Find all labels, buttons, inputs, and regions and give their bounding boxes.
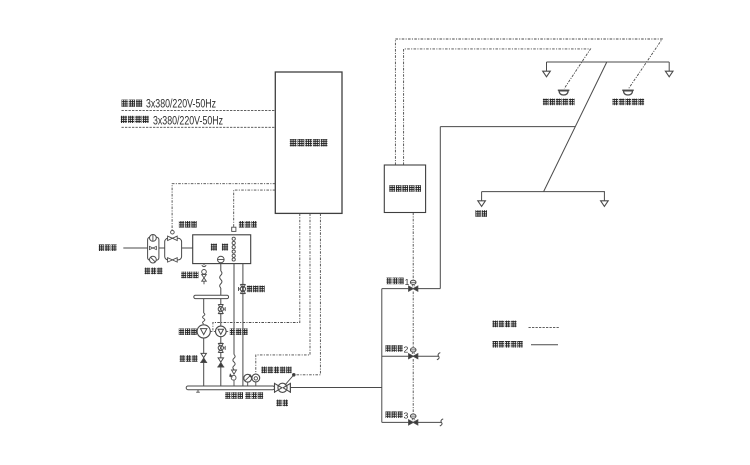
zone valve 2 branch: [382, 355, 439, 357]
svg-text:3x380/220V-50Hz: 3x380/220V-50Hz: [146, 97, 216, 111]
bypass loop with solenoid valve 电磁阀: [165, 238, 182, 260]
heat detector 感温探测器: [558, 89, 570, 91]
label 止回阀: [180, 355, 198, 362]
label 水系统管路 (water pipe legend): [493, 341, 523, 348]
label 高压泵: [179, 328, 197, 335]
zone riser pipe: [381, 289, 383, 423]
label 泄压阀 压力表: [225, 392, 243, 399]
check valve 止回阀 HP: [201, 353, 206, 357]
globe valve SP discharge: [219, 342, 223, 344]
legend dashed sample: [529, 327, 560, 329]
globe valve SP suction: [219, 304, 223, 306]
zone valve 1 branch: [382, 288, 441, 290]
zone valve 3 区域阀3: [409, 420, 414, 425]
label 报警控制器: [389, 185, 421, 192]
sprinkler riser: [439, 127, 441, 289]
label 压力传感器: [261, 367, 291, 374]
sprinkler head lower-left: [481, 192, 483, 201]
wire cabinet to level gauge dashed: [234, 190, 276, 227]
suction header bar: [194, 295, 229, 298]
sprinkler head upper-left: [546, 62, 548, 71]
label 区域阀3: [386, 411, 403, 418]
flex joint relief line: [233, 355, 235, 370]
legend solid sample: [531, 344, 558, 346]
wire inlet pipe: [123, 247, 147, 249]
wire zone valve signal dashed: [412, 213, 414, 281]
main pipe drain tick: [197, 390, 199, 393]
zone valve 2 区域阀2: [409, 354, 414, 359]
sprinkler head lower-right: [603, 192, 605, 201]
label 液位计: [239, 221, 257, 228]
pump 稳压泵: [216, 326, 227, 337]
test valve 测试阀: [241, 283, 245, 285]
wire riser top connector: [440, 126, 575, 128]
label 区域阀1: [387, 278, 404, 285]
label 感温探测器: [543, 99, 575, 106]
wire header to HP pump flex: [203, 299, 205, 313]
label 喷头: [475, 210, 487, 217]
label 电磁阀: [179, 221, 197, 228]
svg-text:1: 1: [405, 277, 410, 287]
wire backup power dashed: [122, 126, 276, 128]
filter 过滤器: [148, 237, 159, 260]
lower sprinkler branch: [482, 191, 605, 193]
wire pump link dashed: [210, 330, 215, 332]
wire relief return line upper: [233, 264, 235, 355]
wire main pipe to zone riser: [290, 387, 381, 389]
pressure transducer dot and link: [292, 373, 295, 376]
wire cabinet to pressure gauge dashed: [256, 213, 310, 374]
label 主阀: [276, 400, 288, 407]
main valve 主阀: [274, 383, 276, 393]
label 排水阀: [181, 272, 198, 279]
wire SP pump to discharge valve: [220, 337, 222, 344]
wire bypass to tank: [182, 247, 193, 249]
water tank 水箱 box: [193, 235, 251, 264]
main pipe bar: [186, 386, 274, 390]
relief drain valve: [232, 370, 237, 374]
pump control cabinet 泵组控制柜 box: [275, 72, 342, 213]
drain valve 排水阀: [203, 264, 205, 266]
wire HP check valve to main pipe: [203, 362, 205, 386]
zone valve 3 branch: [382, 421, 442, 423]
wire tank outlet to header with flex joint: [220, 263, 222, 271]
wire test line: [242, 264, 244, 386]
label 电信号线 (signal wire legend): [493, 321, 517, 328]
wire SP valve to pump: [220, 314, 222, 326]
wire cabinet to pumps dashed: [213, 213, 300, 330]
pressure gauge 压力表: [255, 382, 257, 386]
wire filter to bypass: [159, 247, 165, 249]
wire SP check valve to main pipe: [220, 367, 222, 386]
wire alarm to smoke detector dashed: [395, 39, 662, 165]
label 进水管 (inlet pipe): [99, 244, 117, 251]
smoke detector 感烟探测器: [622, 89, 634, 91]
sprinkler head upper-right: [668, 62, 670, 71]
label 备用电源 (backup power): [121, 116, 149, 123]
svg-text:2: 2: [404, 344, 409, 354]
wire main power dashed: [122, 109, 276, 111]
wire HP pump to check valve: [203, 338, 205, 353]
wire header to SP valve: [220, 299, 222, 305]
label 区域阀2: [386, 345, 403, 352]
wire cabinet to solenoid valve dashed: [172, 184, 275, 231]
label 主电源 (main power): [122, 100, 143, 107]
label 测试阀: [247, 286, 265, 293]
level gauge 液位计: [232, 227, 236, 231]
label 泵组控制柜: [290, 139, 328, 146]
wire alarm to temp detector dashed: [404, 49, 591, 165]
wire cabinet to pressure transducer dashed: [295, 213, 320, 374]
label 稳压泵: [230, 328, 248, 335]
wire to SP check valve: [220, 353, 222, 358]
tank outlet strainer circle: [218, 256, 225, 263]
pump 高压泵: [197, 325, 210, 338]
upper sprinkler branch: [547, 61, 670, 63]
pipe diagonal: [544, 62, 607, 192]
label 感烟探测器: [612, 99, 644, 106]
zone valve 1 区域阀1: [409, 286, 414, 291]
check valve 止回阀 SP: [218, 358, 223, 362]
label 过滤器: [145, 268, 163, 275]
label 水 箱: [211, 244, 217, 251]
relief valve gauge 泄压阀: [247, 382, 249, 386]
svg-text:3: 3: [404, 411, 409, 421]
alarm controller 报警控制器 box: [384, 165, 425, 213]
svg-text:3x380/220V-50Hz: 3x380/220V-50Hz: [153, 113, 223, 127]
